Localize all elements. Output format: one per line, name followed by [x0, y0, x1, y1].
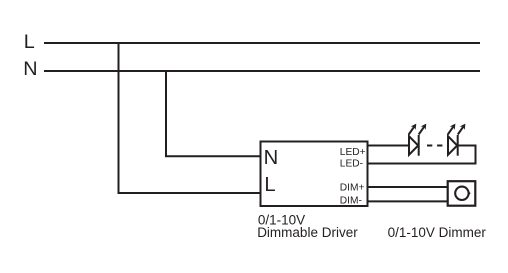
svg-text:N: N [264, 147, 279, 169]
svg-text:0/1-10V Dimmer: 0/1-10V Dimmer [388, 225, 487, 240]
svg-text:LED+: LED+ [340, 147, 366, 158]
wire from L line down to driver L terminal [119, 42, 261, 193]
svg-text:N: N [23, 58, 37, 80]
wire from N line down to driver N terminal [166, 70, 260, 156]
dimmer knob circle [455, 187, 468, 200]
dimmer knob pointer nub [468, 192, 470, 194]
svg-text:DIM+: DIM+ [340, 182, 365, 193]
svg-text:DIM-: DIM- [340, 196, 362, 207]
wire DIM+ from driver to dimmer [367, 186, 448, 188]
driver box U1 [261, 142, 368, 207]
svg-text:L: L [24, 31, 35, 53]
wire DIM- from driver to dimmer [367, 200, 448, 202]
LED D1 [409, 124, 427, 156]
wire LED+ from driver to LED D1 [367, 145, 409, 147]
LED D2 [448, 124, 466, 156]
svg-text:Dimmable Driver: Dimmable Driver [257, 225, 358, 240]
wire N line [44, 70, 480, 72]
svg-text:LED-: LED- [340, 158, 363, 169]
wire L line [44, 42, 480, 44]
dimmer box [448, 181, 476, 206]
wire LED return loop to LED- [367, 146, 476, 164]
svg-text:L: L [264, 174, 275, 196]
dashed wire between LED D1 and LED D2 [427, 145, 442, 147]
